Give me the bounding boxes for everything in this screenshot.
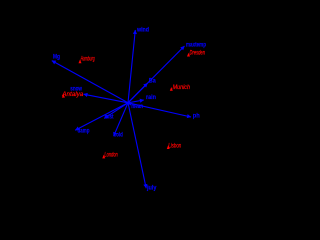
svg-text:Antalya: Antalya (61, 92, 84, 98)
svg-text:july: july (146, 185, 157, 192)
node marker R4 (170, 87, 173, 91)
svg-text:rain: rain (146, 94, 156, 101)
svg-text:damp: damp (78, 127, 90, 134)
wire arrow Mg (upper left) (52, 61, 128, 103)
node marker R2 (62, 94, 65, 98)
wire arrow pH (lower right) (128, 103, 191, 117)
node marker R1 (79, 60, 82, 64)
svg-text:Munich: Munich (173, 85, 191, 91)
svg-text:wind: wind (136, 26, 149, 33)
svg-text:maxtemp: maxtemp (186, 42, 206, 49)
node marker R5 (102, 155, 105, 159)
wire arrow Ba (short upper right) (128, 83, 148, 103)
svg-text:Hamburg: Hamburg (81, 57, 95, 63)
svg-text:Ba: Ba (149, 78, 156, 85)
wire arrow july (down) (128, 103, 146, 188)
svg-text:cold: cold (114, 132, 123, 139)
svg-text:Mg: Mg (53, 53, 60, 60)
wire arrow wind (up) (128, 30, 135, 103)
svg-text:London: London (104, 152, 118, 158)
wire arrow snow (left) (84, 94, 129, 103)
svg-text:ph: ph (193, 113, 200, 120)
svg-text:Lisbon: Lisbon (168, 143, 181, 149)
wire arrow mean (tiny right) (128, 103, 131, 105)
node marker R3 (187, 53, 190, 57)
node marker R6 (167, 145, 170, 149)
svg-text:Dresden: Dresden (190, 51, 206, 57)
wire arrow mist (short lower left) (104, 103, 128, 119)
wire arrow cold (down steep left) (114, 103, 128, 136)
wire arrow maxtemp (upper right) (128, 46, 185, 103)
wire arrow damp (long lower left) (75, 103, 128, 130)
wire arrow rain (short right) (128, 100, 144, 103)
